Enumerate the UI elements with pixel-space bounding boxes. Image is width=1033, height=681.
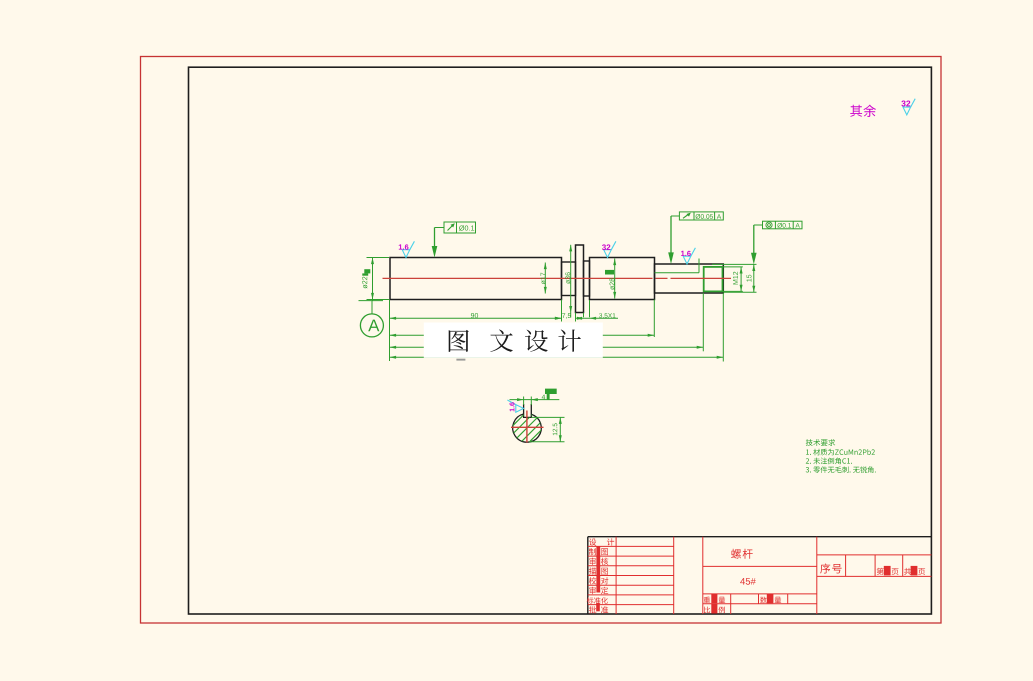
technical requirements text [806,439,836,446]
title block red grid [588,545,674,547]
dim 90 [390,317,562,319]
roughness 1.6 on journal [683,256,691,264]
outer red frame [141,57,942,624]
title block row labels [589,538,596,545]
dim ø22 text [362,277,367,289]
section hatch lines [489,415,565,442]
dim ø28 [614,259,616,299]
flange ø36 disk [576,245,584,313]
relief ring 3.5x1 groove [584,261,590,296]
datum A stem [371,301,373,314]
datum A circle [360,314,383,337]
material 45# [740,578,756,585]
part name 螺杆 [731,549,753,559]
shaft ø28 section [590,258,655,300]
weight/qty/scale cells [704,597,710,603]
title block red artifact bar [596,546,600,592]
keyway edge lines on journal [655,272,700,274]
roughness symbol 3.2 top-right [903,107,911,115]
feature control frame runout ø0.1 [444,222,476,233]
feature control frame runout ø0.05 A [679,212,723,220]
watermark text 图文设计 [449,330,469,352]
dim 4 keyway width [510,399,560,401]
note 其余 (rest surfaces) [850,105,876,117]
dim 15 [753,264,755,292]
dim ø22 extension lines [367,257,390,259]
dim line to ø28 end [390,334,655,336]
roughness 3.2 on ø28 [604,250,612,258]
dim ø17 [544,263,546,294]
inner black frame [189,67,932,614]
red centerline of shaft [383,277,732,279]
feature control frame concentricity ø0.1 A [763,221,803,229]
FCF1 leader [435,227,445,229]
shaft body ø22 section [390,258,562,300]
extension lines bottom chain [389,300,391,362]
thread M12 minor diameter (green) [704,267,723,292]
section circle with keyway notch [513,414,542,442]
FCF3 leader [754,224,763,226]
dim 7.5 [562,313,571,319]
dim 3.5x1 groove [576,317,619,319]
watermark white box [424,323,603,358]
green artifact on ø28 [605,270,614,275]
section red centerlines [511,426,544,428]
page fields [877,568,884,575]
dim 12.5 extension lines [531,416,564,418]
serial 序号 [820,564,841,574]
keyway width extension lines [523,397,525,406]
roughness 1.6 on ø22 [402,250,410,258]
thread extension lines for M12 dim [723,266,743,268]
green artifact flag [545,389,557,400]
dim line overall length [390,356,724,358]
dim ø22 line with arrows [372,258,374,301]
dim 12.5 [559,417,561,441]
dim M12 [740,267,742,292]
dim line to thread start [390,346,704,348]
dim ø36 [570,245,572,318]
roughness 1.6 rotated on keyway [507,400,523,412]
green artifact square [364,269,370,273]
FCF2 leader [671,215,679,217]
title block outer black lines [588,536,932,538]
watermark fragment below [456,359,465,361]
shaft neck ø17 section [562,262,576,296]
journal ø15 section [655,264,724,293]
dim 15 extension lines [712,263,757,265]
